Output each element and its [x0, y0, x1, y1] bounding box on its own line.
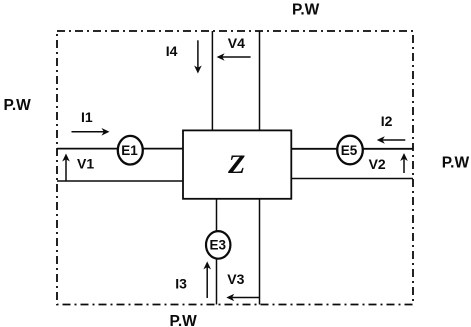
- svg-text:V3: V3: [227, 271, 244, 287]
- arrow I2 (current, points left): [377, 136, 406, 144]
- svg-text:E1: E1: [121, 143, 138, 158]
- source E3: [206, 231, 230, 259]
- svg-text:V4: V4: [228, 35, 245, 51]
- wire left top: [57, 148, 183, 150]
- arrow I1 (current, points right): [72, 128, 110, 136]
- wire bottom right vertical: [259, 199, 261, 305]
- impedance box Z: [183, 130, 291, 198]
- wire top right vertical: [259, 31, 261, 130]
- wire left bottom: [57, 180, 183, 182]
- arrow I3 (current, points up): [203, 261, 211, 298]
- svg-text:P.W: P.W: [442, 155, 470, 172]
- arrow V1 (voltage, points up): [62, 154, 70, 182]
- svg-text:I3: I3: [175, 276, 187, 292]
- wire top left vertical: [211, 31, 213, 130]
- svg-text:I2: I2: [381, 113, 393, 129]
- boundary P.W dash-dot rectangle: [57, 31, 413, 305]
- wire bottom left vertical: [216, 199, 218, 305]
- svg-text:I1: I1: [81, 109, 93, 125]
- source E1: [118, 136, 143, 165]
- svg-text:V2: V2: [369, 156, 386, 172]
- arrow I4 (current, points down): [194, 40, 202, 73]
- arrow V4 (voltage, points left): [217, 53, 251, 61]
- wire right top: [291, 148, 413, 150]
- svg-text:E5: E5: [341, 143, 358, 158]
- source E5: [337, 136, 363, 165]
- svg-text:P.W: P.W: [170, 313, 198, 327]
- arrow V2 (voltage, points up): [400, 153, 408, 173]
- arrow V3 (voltage, points left): [226, 294, 260, 302]
- svg-text:P.W: P.W: [292, 2, 320, 19]
- svg-text:V1: V1: [77, 156, 94, 172]
- svg-text:Z: Z: [227, 150, 245, 179]
- wire right bottom: [291, 178, 413, 180]
- svg-text:E3: E3: [209, 238, 226, 253]
- svg-text:I4: I4: [166, 43, 178, 59]
- svg-text:P.W: P.W: [4, 97, 32, 114]
